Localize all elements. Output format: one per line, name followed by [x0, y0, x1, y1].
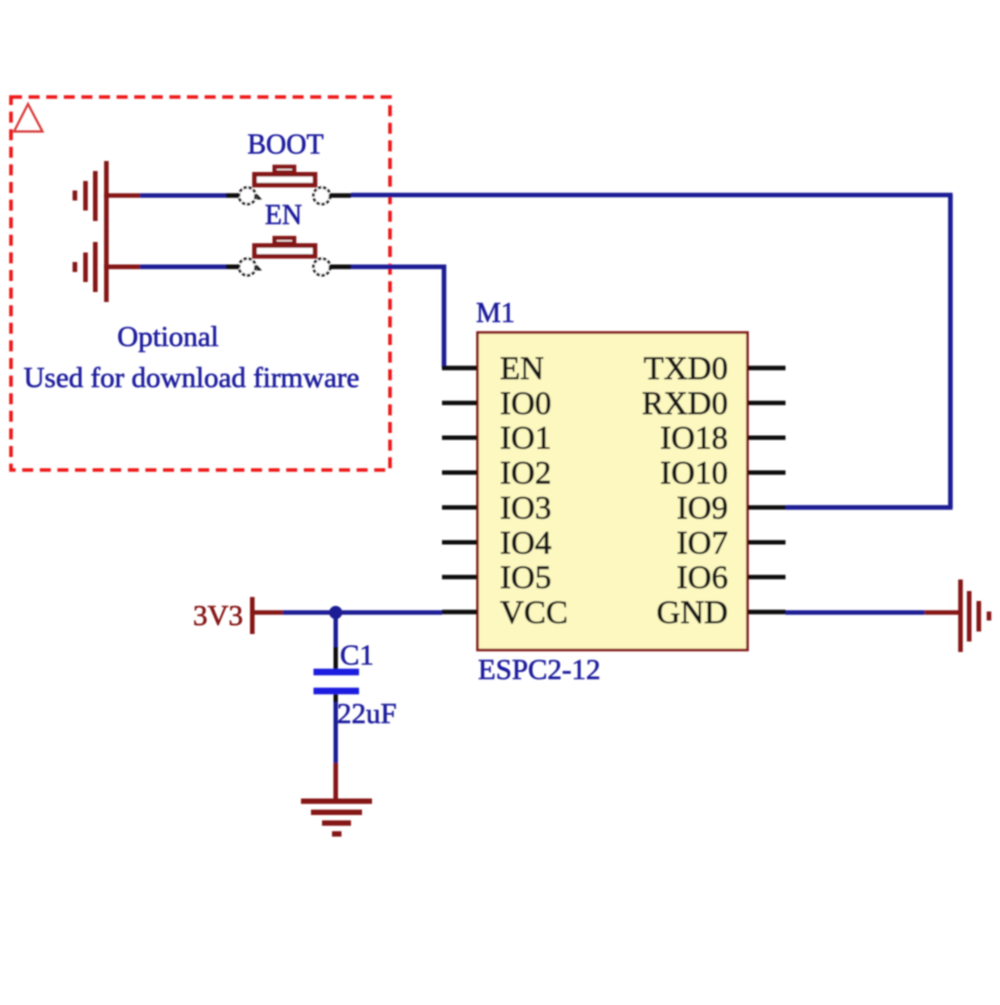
wire blue junction down: [334, 613, 338, 648]
pin stub black BOOT right: [330, 193, 352, 198]
capacitor C1: [314, 647, 360, 702]
pin IO3 stub: [442, 505, 477, 509]
ground GND2 (EN row): [75, 231, 107, 302]
ground GND1 (BOOT row): [75, 161, 107, 232]
svg-text:IO1: IO1: [500, 421, 551, 457]
pin VCC stub: [442, 610, 477, 614]
wire red stub GND2 to EN switch: [104, 264, 140, 269]
pin GND stub: [748, 610, 786, 614]
pin stub black BOOT left: [226, 193, 240, 198]
wire blue EN left: [140, 264, 226, 269]
svg-text:22uF: 22uF: [337, 698, 397, 730]
wire red stub 3V3: [252, 610, 283, 615]
junction node: [329, 606, 342, 619]
svg-text:IO10: IO10: [660, 456, 728, 492]
pin IO5 stub: [442, 575, 477, 579]
wire blue EN to M1: [351, 267, 444, 368]
wire blue VCC row: [283, 610, 442, 615]
wire blue BOOT row to right: [351, 193, 953, 198]
pushbutton SW BOOT: [239, 167, 330, 204]
svg-text:IO9: IO9: [677, 490, 728, 526]
svg-text:M1: M1: [476, 298, 515, 329]
svg-text:RXD0: RXD0: [642, 386, 728, 422]
optional-section dashed red box: [11, 97, 390, 470]
svg-text:IO6: IO6: [677, 560, 728, 596]
wire blue GND row: [786, 610, 925, 615]
svg-text:GND: GND: [657, 595, 729, 631]
pin IO0 stub: [442, 401, 477, 405]
svg-text:BOOT: BOOT: [247, 130, 323, 161]
pin TXD0 stub: [748, 366, 786, 370]
svg-text:EN: EN: [265, 200, 302, 231]
ground GND3 (below C1): [301, 801, 372, 834]
wire blue vertical right side: [948, 195, 953, 507]
svg-text:ESPC2-12: ESPC2-12: [478, 654, 600, 686]
pin IO18 stub: [748, 436, 786, 440]
pushbutton SW EN: [239, 238, 330, 275]
wire red stub to GND4: [925, 610, 961, 615]
svg-text:IO0: IO0: [500, 386, 551, 422]
svg-text:IO2: IO2: [500, 456, 551, 492]
no-ERC triangle marker: [14, 104, 43, 132]
pin stub black EN left: [226, 264, 240, 269]
pin IO2 stub: [442, 470, 477, 474]
pin IO4 stub: [442, 540, 477, 544]
pin IO7 stub: [748, 540, 786, 544]
wire blue BOOT left: [140, 193, 226, 198]
IC M1 body: [478, 333, 748, 651]
pin stub black EN right: [330, 264, 352, 269]
power port 3V3 bar: [250, 597, 255, 634]
pin EN stub: [442, 366, 477, 370]
wire red stub GND1 to BOOT switch: [104, 193, 140, 198]
ground GND4 (right of M1): [961, 580, 990, 653]
pin IO6 stub: [748, 575, 786, 579]
wire blue capacitor down: [334, 702, 338, 763]
svg-text:3V3: 3V3: [193, 600, 243, 632]
svg-text:TXD0: TXD0: [644, 351, 728, 387]
svg-text:VCC: VCC: [500, 595, 568, 631]
pin IO1 stub: [442, 436, 477, 440]
svg-text:IO18: IO18: [660, 421, 728, 457]
wire blue IO9 horizontal: [786, 505, 953, 510]
svg-text:Optional: Optional: [117, 321, 219, 353]
pin RXD0 stub: [748, 401, 786, 405]
wire red stub to GND3: [333, 763, 338, 800]
svg-text:IO7: IO7: [677, 525, 728, 561]
svg-text:EN: EN: [500, 351, 544, 387]
svg-text:IO4: IO4: [500, 525, 551, 561]
svg-text:Used for download firmware: Used for download firmware: [24, 362, 360, 394]
svg-text:IO5: IO5: [500, 560, 551, 596]
pin IO9 stub: [748, 505, 786, 509]
svg-text:IO3: IO3: [500, 490, 551, 526]
pin IO10 stub: [748, 470, 786, 474]
svg-text:C1: C1: [340, 640, 374, 672]
